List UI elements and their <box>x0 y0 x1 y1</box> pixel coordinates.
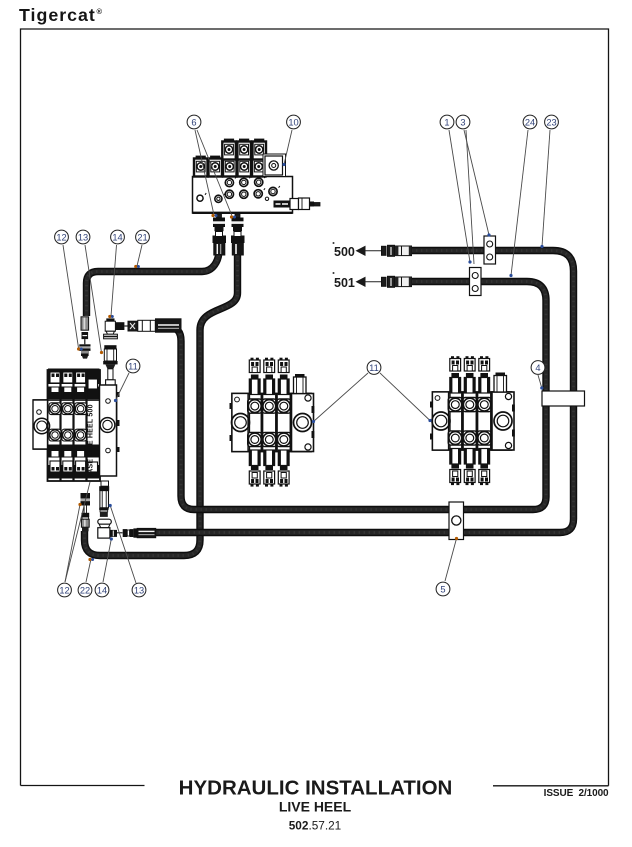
outlet fitting stack (right side) <box>290 199 299 210</box>
leader 6a <box>195 130 214 215</box>
svg-text:24: 24 <box>525 118 535 128</box>
leader 1 <box>449 130 470 262</box>
leader line 501 <box>366 281 383 283</box>
valve bank assembly (center) <box>230 358 315 487</box>
hose 23 (500 coupler, around right side, to elbow below left valve bank) <box>152 251 574 533</box>
hose-end crimp at top valve port 2 <box>232 236 245 255</box>
svg-text:3: 3 <box>460 118 465 128</box>
callout 12 (lower) <box>58 583 72 597</box>
svg-text:4: 4 <box>535 363 540 373</box>
flared collar above elbow 14 (below left valve) <box>98 519 112 528</box>
leader line 500 <box>366 250 383 252</box>
leader 13 lower <box>110 506 136 584</box>
coupler fitting 500 <box>382 245 412 256</box>
callout 5 <box>436 582 450 596</box>
hose-end crimp below left valve (hose 22 end) <box>81 513 89 532</box>
svg-text:1: 1 <box>444 118 449 128</box>
label 500 <box>333 242 355 259</box>
svg-text:22: 22 <box>80 586 90 596</box>
svg-text:14: 14 <box>112 233 122 243</box>
leader 11 left <box>116 373 130 401</box>
svg-text:Tigercat: Tigercat <box>19 5 96 25</box>
adapters and crimp (hose 23 end, below left valve) <box>123 528 156 537</box>
svg-text:LIVE HEEL: LIVE HEEL <box>279 799 352 815</box>
callout 13 (lower) <box>132 583 146 597</box>
svg-text:BASE LIVE HEEL 500: BASE LIVE HEEL 500 <box>88 404 95 479</box>
callout 4 <box>531 361 545 375</box>
valve bank assembly (left, rotated) <box>33 369 120 482</box>
fittings and couplers <box>79 236 411 538</box>
svg-text:12: 12 <box>59 586 69 596</box>
svg-text:501: 501 <box>334 276 355 290</box>
leader end dots <box>77 163 544 561</box>
adapter nut 12 (below left valve) <box>81 493 91 513</box>
callout 23 <box>545 115 559 129</box>
callout 11 (center) <box>367 361 381 375</box>
adapter nut 12 (above left valve) <box>79 344 90 358</box>
svg-text:21: 21 <box>137 233 147 243</box>
hose-end crimp above left valve (hose 21 end) <box>81 317 89 345</box>
leader 22 <box>86 559 91 582</box>
main hydraulic valve (top, with solenoids) <box>193 139 321 237</box>
leader 6b <box>197 130 233 217</box>
valve bank assembly (right) <box>430 356 515 485</box>
leader 11 center <box>314 373 369 422</box>
callout 3 <box>456 115 470 129</box>
svg-text:HYDRAULIC INSTALLATION: HYDRAULIC INSTALLATION <box>179 777 453 800</box>
left valve section symbol <box>49 372 61 472</box>
leader lines <box>63 130 550 583</box>
svg-text:11: 11 <box>128 362 138 372</box>
solenoid block row (lower) <box>194 156 208 177</box>
callout 14 <box>111 230 125 244</box>
svg-text:12: 12 <box>56 233 66 243</box>
svg-text:11: 11 <box>369 363 379 373</box>
svg-text:500: 500 <box>334 245 355 259</box>
leader 24 <box>511 130 528 276</box>
arrow for 500 <box>356 246 366 256</box>
end solenoid block (right, with outline box) <box>263 154 286 177</box>
hose 22 (top valve down, across bottom-left, up to port below left valve bank) <box>85 250 238 556</box>
hydraulic hoses <box>85 250 574 556</box>
hose 24 (501 coupler, around right side, to elbow above left valve bank) <box>165 282 546 510</box>
arrow for 501 <box>356 277 366 287</box>
straight fitting 13 (below left valve) <box>99 481 109 517</box>
callout 6 <box>187 115 201 129</box>
callout 24 <box>523 115 537 129</box>
leader 3b <box>466 130 474 264</box>
leader 12 lower <box>65 505 80 583</box>
elbow output adapters and crimp (hose 24 start) <box>128 319 181 332</box>
hose clamp plate (upper right, items 1/3) <box>484 236 496 264</box>
leader 14 lower <box>103 539 111 582</box>
svg-text:ISSUE 2/1000: ISSUE 2/1000 <box>544 788 609 799</box>
callout 14 (lower) <box>95 583 109 597</box>
svg-text:23: 23 <box>546 118 556 128</box>
callout 1 <box>440 115 454 129</box>
leader 3a <box>464 130 489 235</box>
hose clamp item 5 <box>449 502 464 540</box>
label 501 <box>333 272 355 290</box>
hose 21 (top valve to port above left valve bank) <box>87 250 220 316</box>
svg-text:14: 14 <box>97 586 107 596</box>
leader line from left valve bottom to item 12 <box>65 482 90 582</box>
leader 11 right <box>380 373 430 421</box>
leader 23 <box>542 130 550 247</box>
svg-text:13: 13 <box>78 233 88 243</box>
hose-end crimp at top valve port 1 <box>213 236 226 255</box>
callout 10 <box>287 115 301 129</box>
leader 13 <box>85 245 102 353</box>
name plate <box>274 201 291 208</box>
leader 5 <box>445 539 457 582</box>
leader 12 <box>63 245 79 349</box>
straight fitting 13 (above left valve) <box>103 345 117 387</box>
bottom port fittings <box>193 212 293 214</box>
solenoid block row (upper) <box>222 139 236 160</box>
leader 21 <box>137 245 142 266</box>
callout 11 (left) <box>126 359 140 373</box>
svg-text:5: 5 <box>440 585 445 595</box>
leader 4 <box>538 375 542 388</box>
bulkhead plate item 4 <box>542 391 585 406</box>
callout balloons <box>55 115 559 597</box>
port circles on body <box>225 179 233 187</box>
callout 21 <box>136 230 150 244</box>
tick marks next to ports <box>205 176 280 195</box>
callout 13 <box>76 230 90 244</box>
elbow fitting 14 (below left valve) <box>98 528 123 538</box>
svg-text:13: 13 <box>134 586 144 596</box>
svg-text:10: 10 <box>288 118 298 128</box>
leader 10 <box>284 130 292 165</box>
callout 12 <box>55 230 69 244</box>
elbow fitting 14 (above left valve) <box>104 318 128 338</box>
leader 14 <box>111 245 117 316</box>
svg-text:6: 6 <box>191 118 196 128</box>
svg-text:502.57.21: 502.57.21 <box>289 819 342 833</box>
svg-text:®: ® <box>97 7 103 16</box>
hose clamp plate (lower right, items 1/3) <box>470 268 482 296</box>
callout 22 <box>78 583 92 597</box>
coupler fitting 501 <box>382 276 412 287</box>
